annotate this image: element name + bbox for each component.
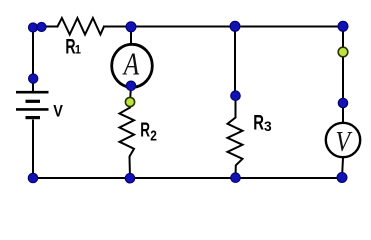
svg-text:V: V [53, 102, 63, 120]
svg-text:A: A [122, 48, 140, 82]
svg-text:1: 1 [75, 43, 82, 57]
svg-text:3: 3 [264, 119, 272, 134]
svg-text:R: R [140, 119, 150, 141]
svg-text:2: 2 [150, 128, 157, 144]
svg-text:R: R [253, 110, 264, 134]
